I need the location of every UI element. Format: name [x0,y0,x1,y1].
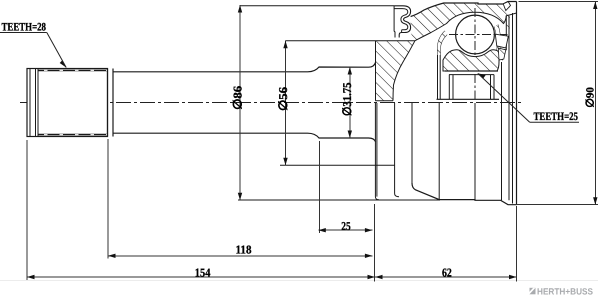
spline block (left shaft end) [27,69,108,137]
cage right band hatch [494,25,500,62]
boot groove floor line (bottom, also d56 extension) [280,164,395,166]
spline teeth top band [38,69,108,71]
teeth25 underline [530,121,579,123]
dim 62 arrows [375,275,383,279]
ball [456,15,495,54]
svg-text:25: 25 [341,219,351,233]
chamfer tab white face (top right) [503,2,510,11]
dim 118 line [108,255,372,257]
dim 62 line [375,276,517,278]
spline right groove line 1 [107,69,109,137]
main shaft top edge [113,62,376,71]
small hatch patch below circlip slab [498,48,506,60]
spline end cap line 3 [37,69,39,137]
d31.75 arrows [348,67,352,75]
dim 154 left extension [26,140,28,280]
shared extension at x=375 [374,204,376,282]
svg-text:∅86: ∅86 [230,86,244,110]
d56 dimension line [285,41,287,166]
inner race (hatched lens with ball groove) [443,50,499,71]
cage left band hatch [438,31,448,55]
spline teeth bottom band [38,134,108,136]
hub bottom line [437,98,500,100]
back wall left boundary line [375,41,377,101]
d86 arrows [238,5,242,13]
cage left band [438,31,448,99]
bottom half feature verticals [438,103,440,200]
bottom groove wall vertical [395,103,399,197]
hatch: bell dome wall (top half) [411,2,510,41]
inner race hub bore lines [445,70,498,72]
hub right verticals [490,75,492,100]
dim 25 line [318,229,372,231]
faint bottom frame line [0,280,598,282]
cavity boundary left (back wall right edge) [393,41,415,101]
hub left verticals [448,75,450,100]
spline teeth top band white ticks [44,69,107,71]
ball horizontal centerline [449,34,509,36]
spline teeth bottom band white ticks [44,134,107,136]
boot groove floor line (top, also d56 extension) [286,40,416,42]
svg-text:154: 154 [195,266,211,280]
spline right groove line 2 [112,69,114,137]
d90 bottom extension [512,204,598,206]
svg-text:62: 62 [442,265,452,279]
hatch: back wall wedge (top half) [376,41,416,101]
boot clamp hook inner profile [394,9,408,33]
d86 dimension line [239,5,241,200]
dim 118 left extension [107,139,109,259]
svg-text:∅56: ∅56 [276,87,290,111]
svg-text:118: 118 [236,243,252,257]
d31.75 dimension line [349,67,351,138]
bell dome outer profile top [411,2,517,17]
boot clamp hook outer profile [394,6,411,38]
cavity boundary upper (ball track + shoulders) [415,12,506,41]
ball vertical centerline [474,8,476,99]
back wall bottom line [376,100,394,102]
bottom bell outer profile [412,183,517,205]
teeth28 underline [0,32,47,34]
circlip groove slab (white) [495,34,508,48]
bottom hook outer wall vertical [411,103,413,183]
svg-text:∅31.75: ∅31.75 [340,83,354,117]
d90 arrows [593,2,597,10]
dim 118 arrows [108,254,116,258]
main shaft bottom edge [113,133,376,142]
boot groove land top edge + d86 top extension [240,5,394,7]
teeth28 leader arrow [60,60,67,67]
bottom half: back face second vertical [376,103,378,197]
logo herth+buss [530,286,594,295]
spline end cap line 2 [35,69,37,137]
bottom half: back face vertical with round bottom corner [375,103,379,200]
bell bottom edge + d86 bottom extension [238,199,440,201]
teeth28 leader line [47,33,66,68]
dim 154 line [27,276,375,278]
svg-text:HERTH+BUSS: HERTH+BUSS [537,286,593,295]
dim 25 left extension [318,141,320,233]
svg-text:∅90: ∅90 [584,87,596,108]
d56 arrows [283,41,287,49]
teeth25 leader arrow [478,73,486,78]
mouth bore step lines (top right) [502,13,516,60]
hatch: rim ring right [502,16,509,60]
d90 top extension [519,1,598,3]
dim 62 right extension [516,206,518,282]
dim 154 arrows [27,275,35,279]
svg-text:TEETH=25: TEETH=25 [534,111,579,123]
d90 dimension line [594,2,596,205]
rim verticals right [508,16,510,201]
svg-text:TEETH=28: TEETH=28 [2,22,47,34]
cage right band [494,25,500,62]
spline end cap line 1 [29,69,31,137]
boot groove land right edge [393,6,396,38]
teeth25 leader line [478,73,530,122]
dim 25 arrows [318,228,326,232]
main horizontal centerline [20,102,524,104]
